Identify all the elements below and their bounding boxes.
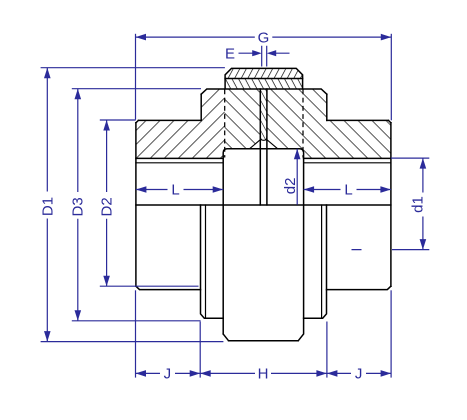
svg-text:D2: D2 (98, 197, 115, 216)
chamfer line right pipe end (267, 140, 278, 149)
L dimension line right (304, 189, 391, 191)
nut left half hatched section (136, 89, 225, 158)
cap top band hatch (225, 68, 303, 78)
svg-text:d2: d2 (282, 178, 299, 195)
white chamfer wedge left pipe end (250, 140, 261, 149)
L right arrowheads (304, 186, 315, 193)
svg-text:D3: D3 (69, 197, 86, 216)
D3 arrowheads (75, 89, 82, 100)
hidden dashed line right (302, 90, 304, 158)
lower tier rim edge right (321, 205, 323, 318)
D2 extension top (100, 119, 136, 121)
svg-text:d1: d1 (410, 196, 427, 213)
cap outline (225, 68, 303, 88)
skirt bottom edge left (136, 286, 201, 289)
D2 extension bottom (100, 285, 199, 287)
bottom extension line mid right (326, 322, 328, 378)
mid horizontal line (136, 204, 391, 206)
D1 dimension line (46, 68, 48, 342)
d1 dimension line (422, 158, 424, 250)
D1 extension bottom (41, 341, 224, 343)
svg-text:J: J (164, 365, 172, 382)
D3 dimension line (77, 89, 79, 321)
G extension line right (390, 34, 392, 121)
E arrow tails (239, 52, 290, 54)
D2 dimension line (106, 120, 108, 286)
D2 arrowheads (103, 120, 110, 131)
white chamfer wedge right pipe end (267, 140, 278, 149)
cap division line (225, 78, 303, 80)
nut rim line right (304, 162, 391, 164)
gasket column hatch (260, 89, 267, 140)
slot right edge (266, 89, 268, 205)
slot left edge (259, 89, 261, 205)
bottom extension line mid left (199, 322, 201, 378)
L left arrowheads (136, 186, 147, 193)
G arrowheads (136, 34, 147, 41)
svg-text:D1: D1 (40, 197, 57, 216)
flange left edge (200, 94, 202, 120)
lower tier rim edge left (205, 205, 207, 318)
bottom extension line far left (135, 290, 137, 377)
hidden dashed line left (224, 90, 226, 158)
bottom dimension line (136, 372, 392, 374)
bottom extension line far right (390, 290, 392, 377)
D1 arrowheads (44, 68, 51, 79)
band/skirt right edge (390, 123, 392, 286)
white slot gap below gasket (261, 140, 266, 148)
d1 extension bottom (352, 249, 430, 251)
flange right edge (326, 94, 328, 120)
cap bottom band hatch (225, 79, 303, 89)
hub and stem outline (223, 149, 303, 341)
stem bottom edge (229, 340, 299, 342)
G dimension line (136, 36, 392, 38)
svg-text:L: L (171, 182, 179, 199)
svg-text:J: J (355, 365, 363, 382)
band top edge left (136, 120, 201, 122)
G extension line left (135, 34, 137, 120)
svg-text:L: L (344, 182, 352, 199)
band top edge right (327, 120, 391, 122)
svg-text:G: G (258, 29, 270, 46)
body right hatched section (225, 89, 391, 158)
d1 extension top (391, 157, 429, 159)
nut rim line left (136, 162, 223, 164)
D3 extension bottom (72, 320, 201, 322)
d2 dimension line (296, 149, 298, 205)
E arrowheads (252, 50, 262, 56)
band bottom edge left (136, 157, 223, 159)
D3 extension top (72, 88, 201, 90)
gasket rounded bottom (260, 137, 267, 141)
d1 arrowheads (420, 158, 427, 169)
D1 extension top (41, 67, 225, 69)
L dimension line left (136, 189, 223, 191)
flange top edge (201, 89, 327, 94)
E extension lines (262, 46, 267, 67)
lower tier outer edge left (201, 205, 224, 318)
band/skirt left edge (135, 123, 137, 286)
svg-text:E: E (225, 45, 235, 62)
J H J arrowheads (136, 370, 147, 377)
d2 arrowhead (294, 149, 301, 160)
lower tier outer edge right (304, 205, 327, 318)
svg-text:H: H (258, 365, 269, 382)
band bottom edge right (304, 157, 391, 159)
skirt bottom edge right (327, 286, 391, 289)
chamfer line left pipe end (250, 140, 261, 149)
